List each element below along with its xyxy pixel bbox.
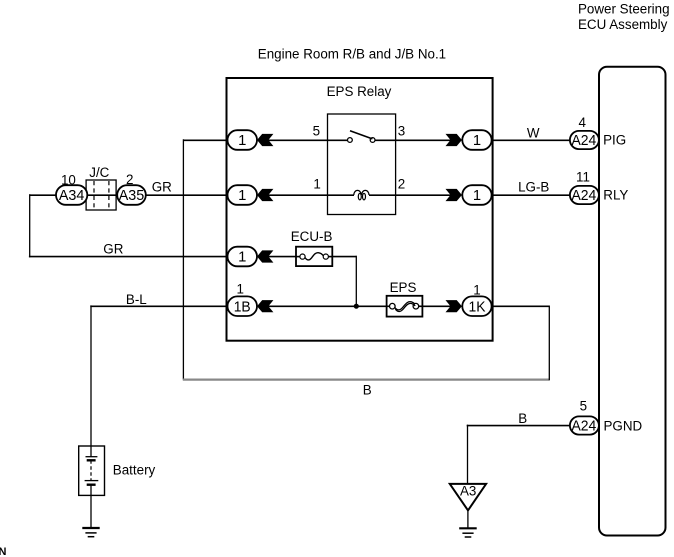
svg-text:1: 1 [238,250,246,266]
ground (battery) [82,527,99,529]
svg-text:1B: 1B [234,299,251,315]
wire B net bottom [183,379,550,381]
svg-text:1: 1 [236,281,243,296]
wire row2 coil [268,194,354,196]
wire GR loop vertical [29,194,31,257]
wire row4 B inside [268,305,386,307]
arrow row2 right [446,189,462,201]
svg-text:Power Steering: Power Steering [578,1,670,16]
connector A24 RLY [570,186,599,204]
svg-text:B: B [363,383,372,398]
connector A24 PIG [570,131,599,149]
svg-text:A24: A24 [572,133,597,149]
svg-text:N: N [0,546,7,557]
wire LG-B [492,194,572,196]
arrow row1 left [257,134,273,146]
svg-text:EPS Relay: EPS Relay [327,84,392,99]
wire B to PGND [467,425,570,427]
svg-text:2: 2 [398,176,405,191]
wire B net vertical left [182,139,184,379]
svg-text:EPS: EPS [390,280,417,295]
wire 1K to vertical [492,305,550,307]
svg-text:5: 5 [580,398,587,413]
wire battery to ground [90,495,92,528]
svg-text:11: 11 [576,170,590,185]
fuse ECU-B [296,247,332,266]
wire W [492,139,572,141]
svg-text:B: B [518,411,527,426]
svg-text:5: 5 [313,123,320,138]
ground (A3) [459,527,477,529]
svg-text:4: 4 [578,115,586,130]
svg-text:ECU-B: ECU-B [291,229,333,244]
ECU box U1 (Power Steering ECU Assembly) [599,67,666,536]
outer box (Engine Room R/B and J/B No.1) [227,78,493,341]
svg-text:1: 1 [473,283,480,298]
relay switch contacts [348,138,353,143]
oval terminal 1 row1 left [228,130,258,150]
svg-text:Battery: Battery [113,463,156,478]
relay switch blade [350,131,372,139]
svg-text:1: 1 [473,133,481,149]
svg-text:A24: A24 [572,188,597,204]
wire J/C through (A35 to row2 oval) [86,194,228,196]
ground triangle A3 [450,484,486,511]
arrow row4 left [257,300,273,312]
svg-text:1: 1 [238,188,246,204]
svg-text:PGND: PGND [604,418,643,433]
connector A34 [56,185,87,205]
arrow row1 right [446,134,462,146]
relay coil L1 [354,190,361,195]
wire B net vertical right [548,306,550,380]
svg-text:1: 1 [313,176,320,191]
svg-text:GR: GR [103,242,123,257]
wire GR row3 [29,256,228,258]
connector A35 [117,185,146,205]
oval terminal 1 row1 right [462,130,491,150]
svg-text:1: 1 [238,133,246,149]
oval terminal 1 row3 left [228,247,258,267]
svg-text:GR: GR [152,179,172,194]
arrow row4 right [446,300,462,312]
oval terminal 1B [228,296,258,316]
svg-text:RLY: RLY [603,188,628,203]
wire row1 stub to vertical [183,139,227,141]
connector A24 PGND [570,416,599,434]
battery BAT1 [79,446,105,495]
junction connector J/C [86,180,116,210]
svg-text:B-L: B-L [126,292,147,307]
arrow row3 left [257,250,273,262]
svg-text:J/C: J/C [89,165,109,180]
svg-text:1K: 1K [469,299,486,315]
svg-text:1: 1 [473,188,481,204]
svg-text:3: 3 [398,123,405,138]
arrow row2 left [257,189,273,201]
svg-text:A35: A35 [119,188,145,204]
oval terminal 1 row2 left [228,185,258,205]
oval terminal 1 row2 right [462,185,491,205]
svg-text:A34: A34 [59,188,85,204]
fusible link EPS [387,296,423,317]
wire A3 to ground [467,510,469,528]
wire row3 to ECU-B fuse [268,256,296,258]
svg-text:A24: A24 [572,419,597,435]
relay inner box [328,114,396,215]
oval terminal 1K [462,296,491,316]
wire ECU-B fuse to junction [332,256,356,258]
svg-text:LG-B: LG-B [518,180,549,195]
svg-text:Engine Room R/B and J/B No.1: Engine Room R/B and J/B No.1 [258,47,446,62]
svg-text:W: W [527,126,540,141]
junction dot [354,304,359,309]
wire B-L [90,305,228,307]
wire row1 inside relay [268,139,347,141]
wire A34 stub [30,194,57,196]
svg-text:PIG: PIG [603,133,626,148]
svg-text:A3: A3 [460,484,476,499]
svg-text:ECU Assembly: ECU Assembly [578,17,668,32]
